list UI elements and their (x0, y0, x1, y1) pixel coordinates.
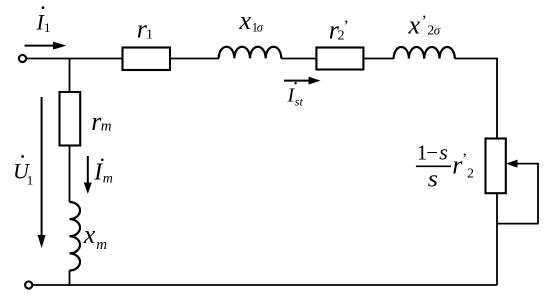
svg-text:m: m (103, 172, 113, 187)
svg-text:’: ’ (344, 18, 349, 35)
label rm (91, 107, 111, 136)
terminal (top-left input) (19, 55, 26, 62)
wire below xm (69, 270, 71, 285)
svg-text:’: ’ (462, 151, 467, 168)
inductor x2sigma' (394, 47, 455, 59)
svg-text:I: I (93, 159, 103, 185)
label xm (83, 220, 108, 253)
svg-text:x: x (83, 220, 96, 249)
wire: rm to xm (69, 146, 71, 203)
wire bottom (33, 284, 497, 286)
svg-text:−: − (426, 140, 438, 164)
current arrow I1 (25, 42, 67, 50)
resistor r1 (123, 48, 171, 71)
label (1-s)/s r2' (416, 139, 474, 192)
svg-text:x: x (408, 11, 421, 40)
label x2sigma' (408, 11, 441, 40)
wire: x2sigma' to top-right corner, down to load box (455, 59, 497, 139)
inductor x1sigma (219, 47, 282, 59)
svg-text:1: 1 (146, 27, 153, 42)
svg-text:σ: σ (434, 22, 441, 37)
svg-text:σ: σ (257, 21, 264, 35)
svg-text:st: st (295, 95, 304, 109)
svg-text:s: s (428, 166, 438, 192)
current arrow Ist (284, 77, 321, 85)
wire node/junction at magnetizing branch top (69, 59, 71, 93)
wire: r2' to x2sigma' (363, 58, 394, 60)
svg-text:x: x (239, 6, 252, 35)
svg-text:1: 1 (27, 173, 34, 188)
resistor r2' (316, 48, 363, 70)
wire top: terminal to r1 (27, 58, 123, 60)
svg-text:1: 1 (44, 20, 51, 35)
load resistor (1-s)/s r2' (486, 139, 506, 194)
wire: r1 to x1sigma (170, 58, 219, 60)
label r2' (329, 15, 349, 44)
svg-text:m: m (96, 237, 107, 253)
label Ist (287, 82, 304, 109)
inductor xm (70, 202, 81, 270)
voltage arrow U1 (38, 97, 46, 248)
svg-text:’: ’ (422, 13, 427, 30)
label Im (93, 159, 113, 187)
label I1 (36, 6, 51, 35)
current arrow Im (84, 156, 92, 194)
terminal (bottom-left) (25, 281, 32, 288)
label U1 (13, 155, 33, 188)
label x1sigma (239, 6, 264, 35)
resistor rm (60, 92, 81, 146)
wire right vertical below load box (496, 193, 498, 285)
wire: x1sigma to r2' (281, 58, 316, 60)
svg-text:s: s (439, 139, 448, 164)
svg-text:m: m (101, 118, 112, 134)
wiper arrow into load resistor (497, 160, 538, 224)
svg-text:2: 2 (467, 167, 474, 182)
label r1 (137, 15, 153, 44)
